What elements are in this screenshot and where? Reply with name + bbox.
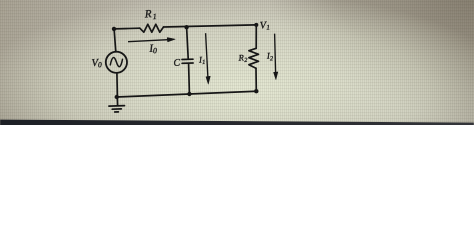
svg-text:1: 1 [202, 59, 206, 66]
svg-text:2: 2 [244, 57, 247, 64]
node A (top-left junction) [112, 27, 116, 31]
wire left branch lower (source bottom to bottom-left node) [116, 73, 119, 97]
wire R2 top lead [255, 25, 257, 48]
current arrow I0 [128, 40, 168, 42]
label V1 [260, 20, 270, 32]
source V0 (AC) [106, 52, 127, 73]
label R1 [144, 8, 157, 22]
svg-text:2: 2 [270, 55, 274, 62]
wire R2 bottom lead [255, 68, 257, 91]
label R2 [237, 52, 247, 64]
node bottom-mid [187, 92, 191, 96]
sine wave inside V0 [110, 58, 122, 67]
node V1 [254, 23, 258, 27]
label V0 [91, 58, 102, 70]
wire capacitor branch upper [187, 27, 189, 58]
ground stub [116, 97, 118, 105]
ground bars [109, 105, 125, 108]
wire capacitor branch lower [188, 64, 191, 94]
resistor R1 [140, 24, 164, 32]
wire bottom [117, 91, 256, 97]
capacitor C plates [182, 58, 193, 60]
label I1 [198, 54, 206, 66]
node bottom-right [254, 89, 258, 93]
current arrow I1 [206, 33, 208, 77]
svg-text:C: C [173, 57, 181, 68]
svg-text:1: 1 [153, 12, 157, 21]
svg-text:0: 0 [98, 60, 102, 69]
wire left branch upper (node A to source top) [114, 29, 116, 52]
label I2 [266, 50, 275, 62]
label C [173, 57, 181, 68]
resistor R2 [249, 48, 259, 68]
svg-text:0: 0 [153, 46, 157, 55]
svg-text:1: 1 [266, 24, 270, 32]
node bottom-left [115, 95, 119, 99]
wire top-left segment (node A to R1) [114, 27, 140, 30]
label I0 [148, 43, 157, 56]
node top-mid junction [184, 25, 188, 29]
svg-text:R: R [144, 8, 153, 20]
current arrow I2 [275, 34, 276, 73]
wire top-right segment (R1 to node V1) [164, 25, 257, 27]
